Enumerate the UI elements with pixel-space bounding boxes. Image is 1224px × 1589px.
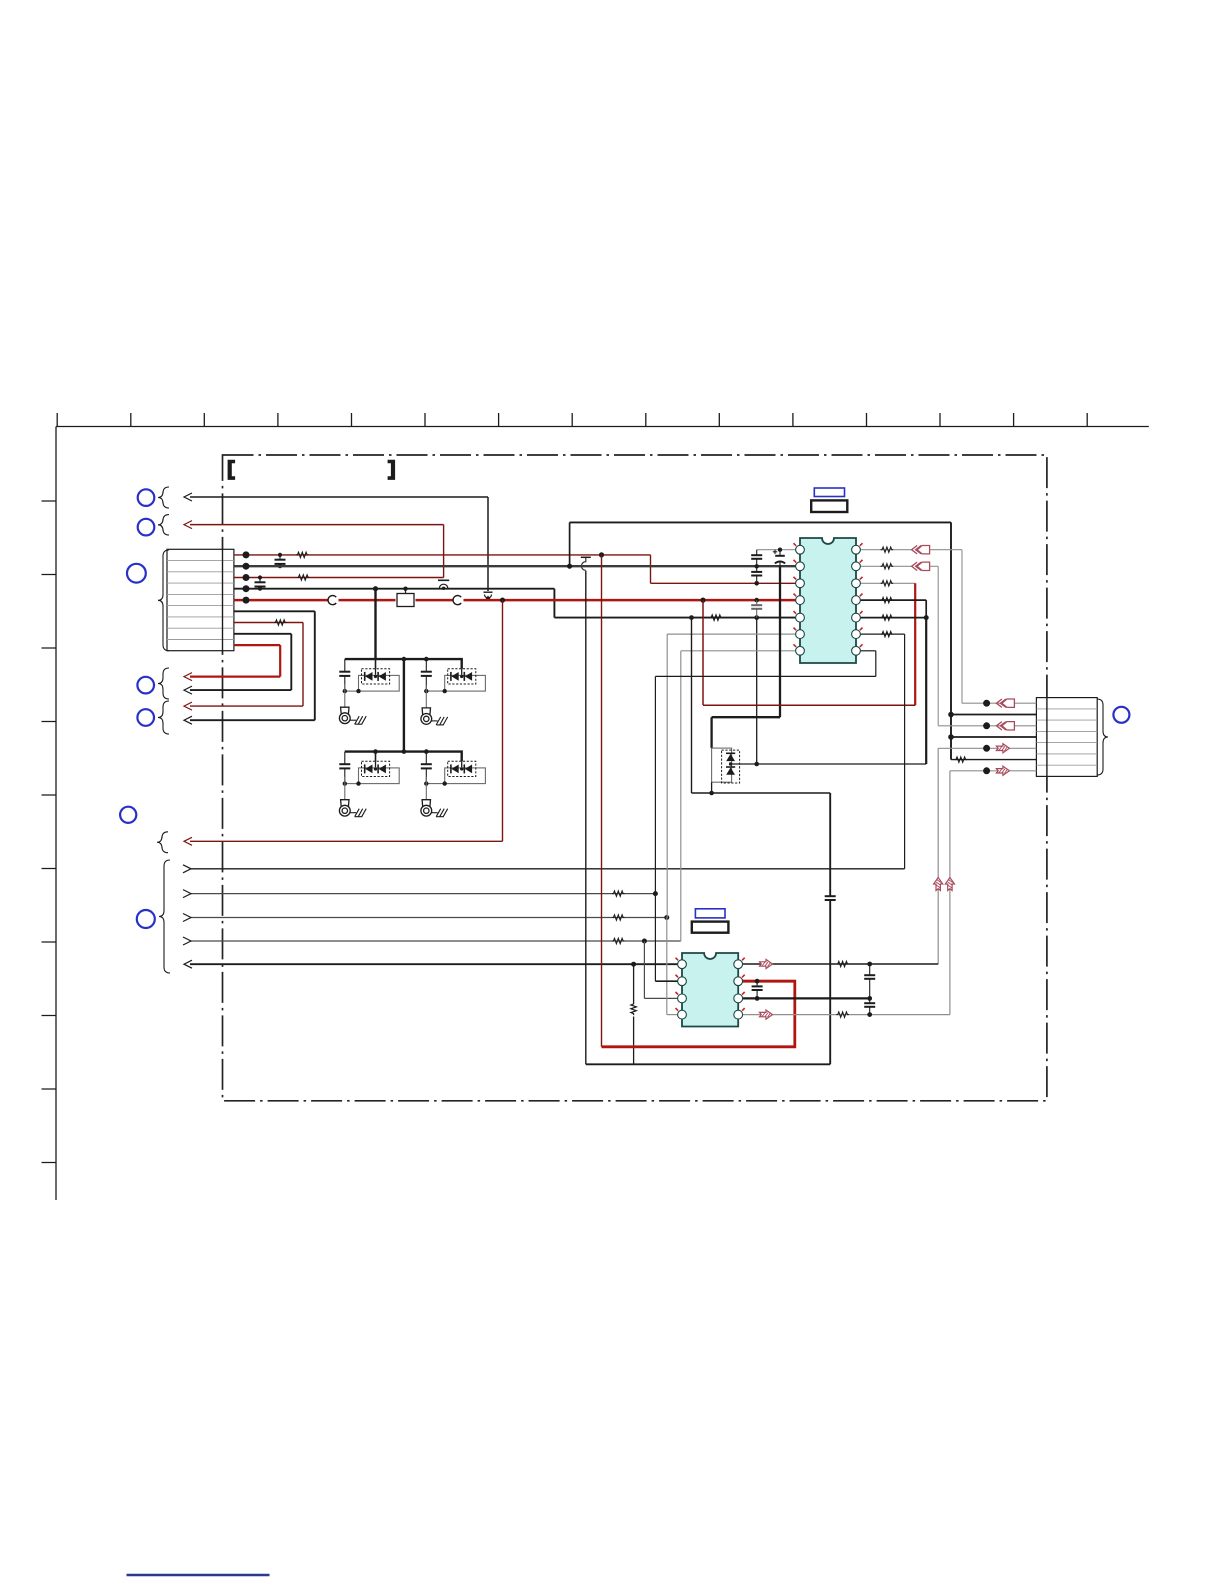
- dual diode package: [445, 761, 486, 783]
- brace: [158, 515, 169, 535]
- brace: [158, 487, 169, 508]
- wire: CN1 row7 (dark red): [234, 622, 303, 624]
- junction: [500, 598, 505, 603]
- junction: [754, 615, 759, 620]
- off-page arrow (output): [760, 1010, 773, 1019]
- wire: CN2 row2: [951, 714, 1036, 716]
- wire: IC1 pin6 net: [667, 633, 796, 635]
- resistor on pin5 wire: [710, 615, 723, 620]
- wire: y=793 run: [692, 792, 831, 794]
- callout 1: [138, 489, 155, 506]
- wire down: [666, 634, 668, 917]
- wire: [461, 669, 463, 675]
- junction: [700, 598, 705, 603]
- capacitor: [751, 550, 762, 567]
- wire: IC1 pinR1 net: [860, 549, 911, 551]
- wire: CN2 row1: [962, 702, 1036, 704]
- arrowhead: [184, 521, 192, 529]
- op-amp U1 pin L3: [796, 579, 805, 588]
- wire: diode center tap: [731, 763, 927, 765]
- wire: IC1 pinR4 net: [860, 599, 926, 601]
- junction: [754, 581, 759, 586]
- resistor on w3: [612, 915, 625, 920]
- wire to terminal: [344, 684, 346, 707]
- wire: [375, 752, 377, 762]
- arrowhead: [184, 716, 192, 724]
- junction: [754, 598, 759, 603]
- junction CN1 r4: [243, 585, 250, 592]
- label box (black) for IC1: [811, 500, 847, 512]
- op-amp U1 pin L5: [796, 613, 805, 622]
- resistor: [881, 547, 894, 552]
- left ruler ticks: [42, 501, 57, 1163]
- chassis ground: [432, 717, 448, 725]
- wire: IC1 pin1 net: [757, 549, 796, 551]
- arrowhead: [184, 686, 192, 694]
- wire: IC2 pinR2 red: [743, 980, 795, 983]
- callout 5: [137, 709, 154, 726]
- capacitor: [421, 752, 432, 784]
- wire: [190, 689, 291, 691]
- wire across top: [570, 521, 951, 523]
- wire stub: [405, 589, 407, 594]
- wire: [290, 634, 292, 690]
- wire: IC2 pinR1 net: [743, 963, 939, 965]
- connector CN1: [167, 549, 234, 650]
- junction: [983, 767, 990, 774]
- terminal: [421, 708, 432, 724]
- junction rail1: [402, 657, 407, 662]
- ferrite bead FB1: [397, 594, 414, 607]
- wire down to IC2 pin2: [654, 676, 656, 981]
- wire: CN2 row4: [951, 736, 1036, 738]
- junction: [599, 552, 604, 557]
- op-amp U1 pin L1: [796, 545, 805, 554]
- capacitor: [339, 659, 350, 691]
- resistor on row3: [297, 575, 310, 580]
- op-amp U2 pin R4: [734, 1010, 743, 1019]
- wire: [426, 783, 444, 785]
- wire: [443, 525, 445, 578]
- wire: CN1 row9 (red): [234, 644, 280, 646]
- top ruler line: [56, 426, 1149, 428]
- dual diode D5 (vertical): [712, 748, 732, 782]
- wire hop symbol at x=585.8: [581, 556, 591, 558]
- junction: [924, 615, 929, 620]
- block boundary (dash-dot): [223, 455, 1047, 1101]
- junction: [755, 979, 760, 984]
- junction: [356, 781, 360, 785]
- resistor: [836, 1012, 849, 1017]
- wire: red power loop: [602, 981, 795, 1047]
- wire: CN1 row3 (dark red): [234, 577, 444, 579]
- junction CN1 r2: [243, 563, 250, 570]
- electrolytic capacitor: [773, 550, 785, 567]
- wire: [314, 611, 316, 720]
- wire (red run): [601, 555, 603, 1047]
- op-amp U2 pin R1: [734, 960, 743, 969]
- arrowhead: [184, 493, 192, 501]
- off-page arrow (input): [912, 546, 930, 554]
- wire: group w2: [190, 893, 655, 895]
- capacitor: [752, 981, 763, 998]
- op-amp U1 pin R2: [852, 562, 861, 571]
- resistor (vertical): [631, 1003, 636, 1016]
- op-amp U1 pin R5: [852, 613, 861, 622]
- wire to terminal: [425, 685, 427, 708]
- wire: [375, 761, 377, 767]
- op-amp U1 pin R3: [852, 579, 861, 588]
- wire: [829, 793, 831, 896]
- wire: IC1 pin7 net: [681, 650, 796, 652]
- resistor on row1: [296, 552, 309, 557]
- wire: [461, 761, 463, 767]
- arrowhead: [184, 702, 192, 710]
- footer link line: [127, 1574, 270, 1576]
- wire: CN1 row4 (black): [234, 588, 555, 590]
- off-page arrow (up): [945, 878, 954, 891]
- wire: group w5 to IC2 pin1: [190, 963, 678, 965]
- op-amp U1 pin R4: [852, 596, 861, 605]
- wire: [779, 566, 781, 717]
- wire (bottom rail): [586, 1063, 830, 1065]
- CN2 pin column line (border overlay): [1046, 698, 1048, 777]
- op-amp U1 pin L7: [796, 646, 805, 655]
- wire: IC1 pinR3 net: [860, 582, 915, 584]
- wire: [375, 659, 377, 669]
- wire: rail 2: [345, 752, 462, 762]
- wire (red): [702, 600, 704, 705]
- junction: [709, 791, 714, 796]
- wire: CN1 row8 (black): [234, 633, 291, 635]
- junction: [258, 575, 262, 579]
- wire down to IC2 pinR1: [937, 748, 939, 964]
- junction rail2: [373, 749, 378, 754]
- op-amp U1 pin R1: [852, 545, 861, 554]
- junction: [755, 564, 759, 568]
- wire: [426, 690, 444, 692]
- resistor: [881, 564, 894, 569]
- title bracket right: [388, 460, 396, 480]
- junction rail2: [424, 749, 429, 754]
- callout 6: [120, 807, 136, 823]
- terminal: [339, 707, 350, 723]
- callout 3: [127, 564, 146, 583]
- wire: IC2 pinR3 net: [743, 997, 870, 999]
- wire: CN1 row2 (thick dark) to IC1 pin2: [234, 565, 796, 567]
- test point symbol: [438, 579, 449, 581]
- wire (red): [703, 704, 915, 706]
- junction CN1 r3: [243, 574, 250, 581]
- wire: CN2 row7: [950, 770, 1037, 772]
- wire: [667, 1014, 678, 1016]
- resistor: [881, 631, 894, 636]
- junction: [373, 586, 378, 591]
- resistor: [836, 961, 849, 966]
- junction: [948, 712, 954, 718]
- junction: [631, 962, 636, 967]
- wire: [190, 675, 280, 677]
- wire to IC1 pin3: [651, 582, 796, 584]
- op-amp U2 pin L3: [678, 994, 687, 1003]
- junction: [983, 700, 990, 707]
- off-page arrow (up): [934, 878, 943, 891]
- off-page arrow (input): [996, 722, 1014, 730]
- connector CN2: [1036, 698, 1097, 777]
- junction: [983, 745, 990, 752]
- label box (black) for IC2: [692, 922, 729, 933]
- wire down to CN2 r3: [937, 566, 939, 726]
- wire: feed to diode rail: [374, 589, 376, 659]
- junction: [403, 587, 407, 591]
- junction: [867, 1012, 872, 1017]
- callout 2: [138, 519, 155, 536]
- junction: [755, 996, 760, 1001]
- wire: [302, 623, 304, 707]
- wire: [712, 716, 780, 718]
- chassis ground: [432, 809, 448, 817]
- CN1 pin column line (border overlay): [222, 549, 224, 650]
- wire (red) down: [914, 583, 916, 705]
- wire: [644, 997, 677, 999]
- wire: CN1 row1 (dark red): [234, 554, 651, 556]
- shield tap symbol: [485, 595, 492, 599]
- junction: [258, 587, 262, 591]
- wire: [375, 669, 377, 675]
- capacitor: [421, 659, 432, 691]
- dual diode package: [359, 669, 400, 691]
- op-amp U1 pin L2: [796, 562, 805, 571]
- junction CN1 r1: [243, 551, 250, 558]
- wire: [279, 645, 281, 677]
- wire: branch up from row2: [569, 522, 571, 566]
- wire: [345, 690, 359, 692]
- wire down right: [950, 522, 952, 759]
- junction: [567, 564, 572, 569]
- wire (shield run): [585, 571, 587, 1065]
- callout 7: [137, 910, 155, 928]
- wire: [829, 900, 831, 1064]
- wire: [691, 618, 693, 793]
- off-page arrow (output): [996, 766, 1009, 775]
- wire IC1 pinL7 to w4: [680, 651, 682, 941]
- wire: [650, 555, 652, 583]
- wire: [553, 589, 555, 618]
- wire: mute line (dark red): [190, 840, 503, 842]
- terminal: [421, 800, 432, 816]
- wire: [711, 782, 713, 793]
- capacitor C_a: [275, 555, 286, 566]
- junction: [689, 615, 694, 620]
- op-amp U2 pin R3: [734, 994, 743, 1003]
- wire: group w1: [190, 868, 905, 870]
- wire: [875, 651, 877, 677]
- wire: group w4: [190, 940, 681, 942]
- wire: [633, 964, 635, 1002]
- junction: [356, 689, 360, 693]
- wire: top signal 2: [190, 524, 444, 526]
- op-amp U2: [682, 953, 738, 1027]
- wire: CN2 row3: [938, 725, 1036, 727]
- off-page arrow (input): [912, 562, 930, 570]
- capacitor: [751, 600, 762, 618]
- wire: [655, 980, 677, 982]
- wire: [925, 600, 927, 618]
- CN2 brace: [1097, 699, 1108, 775]
- junction: [948, 734, 954, 740]
- brace: [158, 701, 169, 734]
- junction: [278, 564, 282, 568]
- cable joint symbol: [453, 596, 461, 605]
- CN1 brace: [158, 550, 169, 651]
- wire: [190, 705, 303, 707]
- wire: [655, 675, 875, 677]
- wire to IC1 pin4: [464, 599, 796, 602]
- off-page arrow (input): [996, 699, 1014, 707]
- wire: group w3: [190, 917, 667, 919]
- capacitor: [864, 964, 875, 998]
- arrowhead: [183, 890, 191, 898]
- wire down to diode tap: [925, 618, 927, 764]
- wire: [345, 783, 359, 785]
- junction CN1 r5: [243, 597, 250, 604]
- wire: top signal 1: [190, 496, 488, 498]
- capacitor: [339, 752, 350, 784]
- brace: [158, 668, 169, 699]
- wire to IC1 pin5: [554, 617, 795, 619]
- left ruler line: [55, 427, 57, 1201]
- chassis ground: [350, 716, 366, 724]
- resistor on w4: [612, 938, 625, 943]
- junction: [343, 781, 347, 785]
- junction: [642, 939, 647, 944]
- capacitor in x=830 line: [825, 896, 836, 900]
- junction: [867, 996, 872, 1001]
- wire: [633, 1017, 635, 1065]
- junction: [424, 781, 428, 785]
- wire w3 to IC2 pin4: [666, 918, 668, 1015]
- op-amp U2 pin R2: [734, 977, 743, 986]
- terminal: [339, 800, 350, 816]
- wire: [502, 600, 504, 841]
- junction: [424, 689, 428, 693]
- op-amp U2 pin L4: [678, 1010, 687, 1019]
- wire: [930, 565, 939, 567]
- wire down to IC2 pinR4: [949, 771, 951, 1015]
- junction: [754, 762, 759, 767]
- wire: IC1 pinR6 net: [860, 633, 904, 635]
- junction: [443, 781, 447, 785]
- arrowhead: [184, 673, 192, 681]
- op-amp U1 pin L6: [796, 630, 805, 639]
- wire: [930, 549, 962, 551]
- group brace: [159, 860, 170, 973]
- wire: IC1 pinR5 net: [860, 617, 926, 619]
- resistor: [881, 615, 894, 620]
- wire: CN2 row6: [951, 759, 1036, 761]
- wire to terminal: [344, 777, 346, 800]
- arrowhead: [183, 865, 191, 873]
- capacitor C_b: [255, 578, 266, 589]
- resistor on w2: [612, 891, 625, 896]
- junction: [867, 962, 872, 967]
- op-amp U2 pin L1: [678, 960, 687, 969]
- resistor: [955, 757, 968, 762]
- brace: [157, 832, 168, 853]
- callout 4: [137, 677, 154, 694]
- top ruler ticks: [57, 413, 1087, 427]
- cable joint symbol: [328, 596, 336, 605]
- junction: [343, 689, 347, 693]
- junction: [278, 553, 282, 557]
- wire to terminal: [425, 777, 427, 800]
- junction: [983, 722, 990, 729]
- junction rail1: [424, 657, 429, 662]
- op-amp U2 pin L2: [678, 977, 687, 986]
- junction: [778, 548, 782, 552]
- resistor on row7: [274, 620, 287, 625]
- junction: [443, 689, 447, 693]
- junction: [664, 915, 669, 920]
- wire: IC1 pinR2 net: [860, 565, 911, 567]
- capacitor: [751, 566, 762, 583]
- wire: [339, 599, 396, 602]
- wire: IC2 pinR4 net: [743, 1014, 950, 1016]
- wire: CN1 row6 (black): [234, 610, 315, 612]
- wire: [190, 719, 315, 721]
- title bracket left: [228, 460, 236, 480]
- dual diode package: [445, 669, 486, 691]
- label box (blue) for IC2: [695, 909, 725, 918]
- label box (blue) for IC1: [814, 488, 844, 497]
- wire w4 to IC2 pin3: [643, 941, 645, 998]
- wire down to w1: [904, 634, 906, 869]
- junction: [653, 891, 658, 896]
- resistor: [881, 581, 894, 586]
- op-amp U1: [800, 538, 856, 663]
- off-page arrow (output): [760, 959, 773, 968]
- arrowhead: [183, 937, 191, 945]
- capacitor: [864, 998, 875, 1014]
- op-amp U1 pin R6: [852, 630, 861, 639]
- junction rail2: [402, 749, 407, 754]
- wire: rail 1: [345, 659, 462, 669]
- arrowhead: [184, 837, 192, 845]
- callout 8: [1113, 707, 1129, 723]
- arrowhead: [183, 914, 191, 922]
- wire: center link: [403, 659, 405, 752]
- wire: [710, 717, 712, 748]
- wire: CN2 row5: [938, 747, 1036, 749]
- off-page arrow (output): [996, 744, 1009, 753]
- wire: [487, 497, 489, 591]
- dual diode package: [359, 761, 400, 783]
- wire: [756, 618, 758, 764]
- wire: CN1 row5 (thick red B+): [234, 599, 328, 602]
- wire down to CN2 r1: [961, 550, 963, 704]
- chassis ground: [350, 809, 366, 817]
- arrowhead: [184, 960, 192, 968]
- op-amp U1 pin R7: [852, 646, 861, 655]
- resistor: [881, 597, 894, 602]
- op-amp U1 pin L4: [796, 596, 805, 605]
- wire: [416, 599, 453, 602]
- wire: IC1 pinR7 net: [860, 650, 875, 652]
